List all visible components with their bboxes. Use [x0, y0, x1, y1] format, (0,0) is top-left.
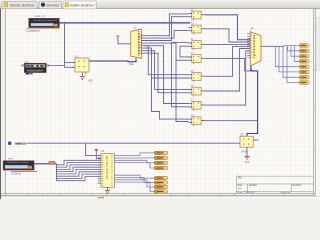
- label above U1: [75, 54, 79, 58]
- wire col bit 2: [114, 160, 154, 163]
- gate G7: [189, 100, 205, 111]
- svg-text:Frequency Meter: Frequency Meter: [28, 69, 43, 72]
- IC U5 (output driver): [240, 136, 253, 147]
- wire rx bit 5: [57, 172, 102, 176]
- port row2: [300, 49, 310, 53]
- label SEL below mux2: [249, 68, 254, 71]
- wire: G5 out to mux2: [205, 47, 251, 77]
- wire: G2 out to mux2: [205, 29, 251, 42]
- wire rx bit 4: [57, 170, 102, 174]
- svg-text:Number: Number: [249, 184, 257, 187]
- svg-text:8/16/2010: 8/16/2010: [245, 192, 256, 194]
- wire: feed G3 lower G4 upper: [180, 46, 189, 57]
- U3 left pins: [98, 156, 101, 184]
- instrument U_Terminal (selected): [3, 161, 34, 170]
- port col5: [154, 176, 168, 179]
- IC U1 (clock divider): [72, 58, 89, 72]
- wire: long horizontal to U5: [27, 142, 240, 144]
- label above mux1: [133, 25, 137, 29]
- gate G2: [189, 24, 205, 35]
- svg-text:U4: U4: [250, 27, 254, 31]
- wire: mux1 p4 down to G8 lower: [144, 43, 188, 121]
- port col1: [154, 151, 168, 154]
- selection underline U_DataSource: [26, 27, 60, 29]
- wire: branch to U1 upper pin: [65, 62, 76, 64]
- wire: branch down to U1 lower pin: [65, 23, 76, 67]
- ground below U5: [245, 147, 250, 164]
- label above U_DataSource: [34, 15, 45, 18]
- designator U_DataSource1: [26, 30, 40, 33]
- wire rx bit 3: [57, 167, 102, 171]
- wire col bit 5: [114, 178, 154, 183]
- sheet border left: [4, 9, 6, 195]
- wire: mux2 output: [261, 45, 284, 47]
- ground below U3: [105, 187, 110, 193]
- wire rx bit 6: [57, 174, 102, 178]
- wire rx bit 7: [57, 176, 102, 180]
- port col2: [154, 156, 168, 159]
- tab Devices: [39, 1, 62, 9]
- gate G4: [189, 53, 205, 64]
- port row5: [300, 65, 310, 69]
- svg-text:DataSource Signal: DataSource Signal: [8, 161, 29, 164]
- net label matrix_rx: [15, 141, 27, 145]
- port col4: [154, 166, 168, 169]
- wire col bit 6: [114, 180, 154, 187]
- wire col bit 0: [114, 153, 154, 156]
- label above U3: [101, 149, 105, 153]
- left panel edge: [0, 9, 2, 199]
- svg-text:matrix_ctl: matrix_ctl: [34, 15, 45, 18]
- wire col bit 3: [114, 163, 154, 168]
- port col6: [154, 181, 168, 184]
- port row3: [300, 55, 310, 59]
- instrument U_DataSource (selected): [29, 18, 59, 27]
- title block: [237, 176, 314, 194]
- wire: G4 out to mux2: [205, 58, 258, 71]
- sheet background with grid: [0, 9, 320, 199]
- designator U_Term1: [11, 172, 21, 175]
- wires: fanout to right ports: [284, 44, 300, 47]
- mux U2 (8-out decoder, trapezoid): [131, 29, 142, 58]
- wire: G1 out to mux2: [205, 15, 251, 40]
- wire col bit 1: [114, 157, 154, 159]
- label EN: [129, 62, 134, 66]
- tab Sheet1.SchDoc: [2, 1, 37, 9]
- wire: DataSource out (thick) to gate column: [59, 22, 190, 24]
- instrument U_FreqMeter: [22, 63, 49, 72]
- gate G5: [189, 71, 205, 82]
- port row4: [300, 60, 310, 64]
- wire: mux1 p8 down to G6 lower: [144, 53, 188, 92]
- port col7: [154, 185, 168, 188]
- label above U_FreqMeter: [25, 61, 30, 64]
- mux1 output pins with stubs: [141, 36, 144, 54]
- gate G3: [189, 39, 205, 50]
- wire rx bit 1: [57, 163, 102, 168]
- net label RXD: [49, 161, 55, 164]
- svg-text:Sheet1.SchDoc: Sheet1.SchDoc: [10, 4, 35, 8]
- wire: mux1 p1 up to G1: [144, 14, 188, 36]
- svg-text:Date:: Date:: [238, 191, 244, 194]
- gate G6: [189, 86, 205, 97]
- vertical scrollbar: [316, 9, 320, 199]
- wire: Terminal TX (thick): [34, 163, 57, 165]
- label above U5: [240, 132, 244, 136]
- wire: G7 out to mux2: [205, 51, 251, 105]
- svg-text:Revision: Revision: [292, 185, 302, 187]
- mux U4 (8-in mux, trapezoid): [247, 32, 261, 67]
- svg-text:U_Term1: U_Term1: [11, 172, 21, 175]
- port row7: [300, 76, 310, 80]
- wire: mux2 select vertical down to U3: [247, 66, 258, 136]
- svg-text:U5: U5: [240, 132, 244, 136]
- sheet border bottom (double with zone ticks): [1, 192, 316, 196]
- wire: mux1 p2 to G2 lower: [144, 31, 188, 38]
- gate G1: [189, 10, 205, 21]
- designator U_FreqMeter: [26, 73, 33, 75]
- port col8: [154, 190, 168, 193]
- wire: U1 output to mux EN (dark): [89, 58, 136, 61]
- wire: G3 out to mux2: [205, 43, 251, 45]
- wire: FreqMeter to U1 junction: [49, 64, 65, 66]
- blue dot directive: [8, 141, 12, 145]
- svg-text:VSS: VSS: [88, 80, 93, 83]
- wire: mux1 p7 down to G6 upper: [144, 51, 188, 90]
- port row6: [300, 70, 310, 74]
- wire: feed G4 lower: [176, 59, 189, 61]
- svg-text:matrix_rx: matrix_rx: [15, 141, 26, 145]
- selection underline U_Terminal: [11, 170, 37, 172]
- bus fan vertical: [56, 164, 58, 181]
- port row8: [300, 81, 310, 85]
- wire: vertical feed G7 upper: [144, 46, 188, 104]
- power VCC at mux1 input: [116, 36, 131, 44]
- svg-text:DataSource Signal ID: DataSource Signal ID: [34, 19, 58, 22]
- label above U_Term: [8, 157, 13, 161]
- wire: mux1 p5 down to G5 upper: [144, 46, 188, 75]
- svg-text:term: term: [8, 157, 13, 161]
- wire: U5 right stub: [253, 139, 259, 141]
- gate G8: [189, 115, 205, 126]
- TAB BAR: [0, 0, 320, 9]
- ground below U1: [80, 72, 93, 83]
- wire col bit 4: [114, 175, 154, 178]
- svg-text:SEL: SEL: [249, 68, 254, 71]
- svg-text:matrix.SchDoc *: matrix.SchDoc *: [70, 4, 96, 8]
- wire: branch down to U3: [86, 143, 101, 155]
- port col3: [154, 161, 168, 164]
- svg-text:U_DataSrc1: U_DataSrc1: [26, 30, 40, 33]
- svg-text:GND: GND: [241, 151, 247, 154]
- horizontal scrollbar: [1, 197, 320, 199]
- svg-text:Title: Title: [238, 177, 243, 180]
- svg-text:MATRIX 8X8 DR: MATRIX 8X8 DR: [105, 156, 109, 180]
- port row1: [300, 44, 310, 48]
- svg-text:U2: U2: [133, 25, 137, 29]
- svg-text:VSS: VSS: [245, 161, 250, 164]
- tab matrix.SchDoc (active): [63, 1, 97, 9]
- power VCC above U3: [94, 149, 101, 159]
- label GND under U5: [241, 151, 247, 154]
- wire rx bit 0: [57, 160, 102, 165]
- IC U3 matrix driver (tall): [101, 153, 114, 187]
- wire: G8 out joins select vertical: [205, 120, 258, 122]
- svg-text:Devices: Devices: [47, 4, 60, 8]
- wire: mux1 p6 down to G5 lower: [144, 48, 188, 78]
- svg-text:SEL: SEL: [129, 62, 134, 66]
- svg-text:U3: U3: [101, 149, 105, 153]
- wire col bit 7: [114, 182, 154, 191]
- sheet border right (double with zone ticks): [313, 9, 315, 195]
- wire rx bit 2: [57, 165, 102, 170]
- wire: long vertical feed G1l G3u G7l: [144, 17, 188, 107]
- wire: vertical feed G8 upper: [152, 78, 189, 119]
- label above mux2: [250, 27, 254, 31]
- wire: G6 out to mux2: [205, 49, 251, 92]
- svg-text:Sheet of: Sheet of: [282, 191, 291, 194]
